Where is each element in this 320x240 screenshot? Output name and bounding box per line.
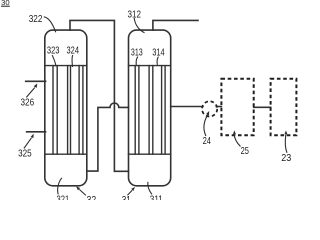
leader 32 arrow shaft xyxy=(79,189,86,195)
svg-text:24: 24 xyxy=(203,136,212,147)
tube pair3 left column line a xyxy=(78,66,80,155)
svg-text:321: 321 xyxy=(57,195,70,201)
tube 323 line a xyxy=(52,66,54,155)
arrowhead 23 xyxy=(284,130,287,134)
arrowhead 31 xyxy=(131,187,135,191)
svg-text:23: 23 xyxy=(281,153,291,164)
svg-text:25: 25 xyxy=(241,146,249,157)
tube pair3 right column line a xyxy=(161,66,163,155)
svg-text:323: 323 xyxy=(47,46,60,57)
svg-text:32: 32 xyxy=(87,195,97,200)
leader 25 xyxy=(234,134,240,146)
pipe from column 31 top going right xyxy=(153,20,198,30)
tube 324 line a xyxy=(67,66,69,155)
leader 323 xyxy=(52,55,56,67)
pipe from column 32 top to column 31 bottom xyxy=(70,20,129,171)
label 30 underline xyxy=(1,5,10,7)
tube pair3 left column line b xyxy=(82,66,84,155)
svg-text:314: 314 xyxy=(152,48,165,59)
dashed unit 24 circle xyxy=(202,101,217,116)
column 32 shell xyxy=(45,30,87,186)
leader 324 xyxy=(71,55,74,67)
tube 313 line b xyxy=(138,66,140,155)
dashed box 23 xyxy=(271,79,297,135)
leader 23 xyxy=(285,135,287,153)
arrowhead 25 xyxy=(233,130,236,134)
tube 313 line a xyxy=(134,66,136,155)
feed line 325 xyxy=(27,131,46,133)
svg-text:322: 322 xyxy=(29,14,43,25)
arrowhead 325 xyxy=(31,134,34,139)
tube 324 line b xyxy=(70,66,72,155)
svg-text:312: 312 xyxy=(128,9,142,20)
column 32 bottom tube sheet xyxy=(45,153,87,155)
column 32 top tube sheet xyxy=(45,65,87,67)
svg-text:326: 326 xyxy=(21,98,35,109)
tube 314 line b xyxy=(152,66,154,155)
feed line 326 xyxy=(26,80,46,82)
leader 314 xyxy=(157,57,158,65)
column 31 top tube sheet xyxy=(129,65,171,67)
leader 313 xyxy=(136,57,138,65)
column 31 shell xyxy=(129,30,171,186)
arrowhead 24 xyxy=(206,111,209,116)
tube 323 line b xyxy=(56,66,58,155)
svg-text:31: 31 xyxy=(122,195,131,200)
leader 31 arrow shaft xyxy=(127,190,132,195)
tube 314 line a xyxy=(148,66,150,155)
svg-text:311: 311 xyxy=(150,194,163,200)
pipe from unit 24 to box 25 xyxy=(216,106,221,108)
leader 24 xyxy=(204,115,208,136)
arrowhead 32 xyxy=(76,186,80,190)
leader 312 xyxy=(134,18,144,33)
svg-text:324: 324 xyxy=(67,46,80,57)
leader 326 arrow shaft xyxy=(26,88,35,98)
column 31 bottom tube sheet xyxy=(129,153,171,155)
leader 321 xyxy=(58,178,62,195)
leader 322 xyxy=(44,17,56,33)
pipe from column 32 bottom to column 31 side with crossover hump xyxy=(87,103,129,171)
arrowhead 326 xyxy=(34,83,38,88)
pipe from column 31 side outlet to unit 24 xyxy=(171,106,203,108)
leader 325 arrow shaft xyxy=(24,138,32,149)
pipe between box 25 and box 23 xyxy=(254,106,271,108)
svg-text:325: 325 xyxy=(18,149,32,160)
svg-text:313: 313 xyxy=(131,48,143,59)
leader 311 xyxy=(148,182,152,195)
dashed box 25 xyxy=(221,79,253,135)
tube pair3 right column line b xyxy=(164,66,166,155)
